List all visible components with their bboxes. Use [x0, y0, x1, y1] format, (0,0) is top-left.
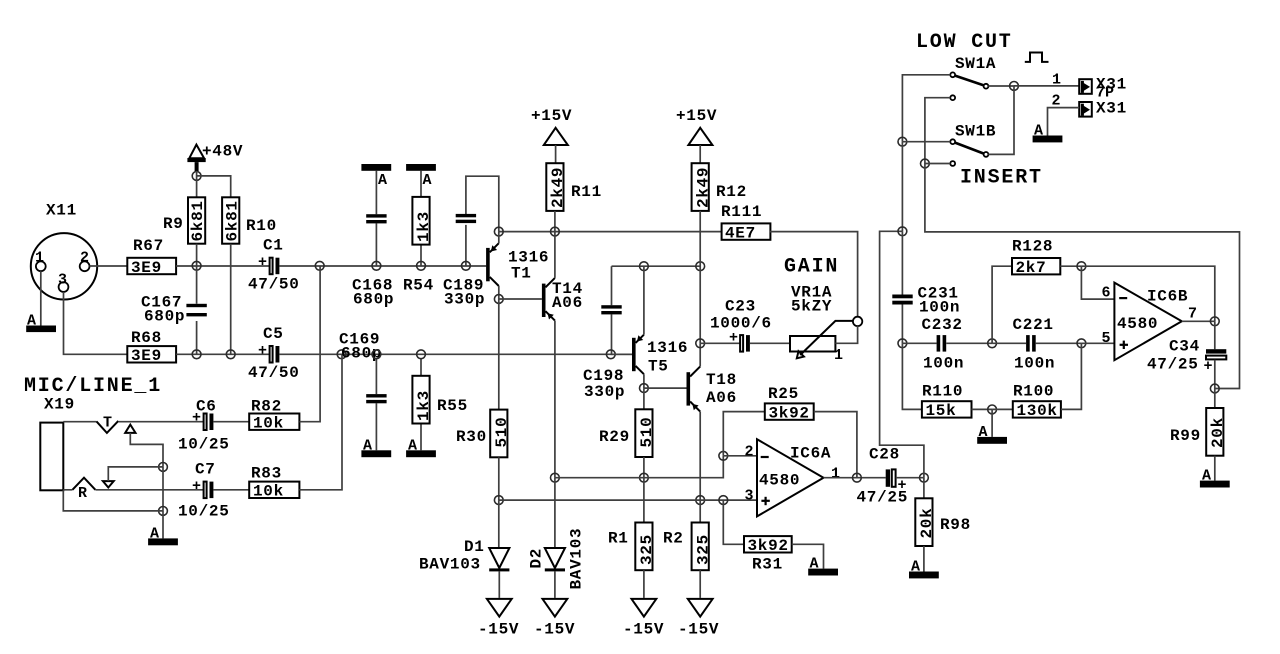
svg-text:6: 6: [1102, 285, 1111, 302]
svg-text:T18: T18: [706, 371, 737, 389]
svg-text:R98: R98: [940, 516, 971, 534]
svg-text:680p: 680p: [353, 291, 394, 309]
wire R11 to y232 line: [554, 211, 556, 232]
wire SW1A output to X31 node: [988, 85, 1014, 87]
resistor R111: [721, 203, 770, 242]
svg-text:3: 3: [745, 488, 754, 505]
svg-text:330p: 330p: [584, 383, 625, 401]
node +48V junction: [192, 172, 201, 181]
wire IC6A output: [824, 477, 886, 479]
node T14 emitter/pin2 junction: [551, 473, 560, 482]
node R30/D1/pin3 junction: [494, 496, 503, 505]
wire R99 to ground: [1214, 456, 1216, 481]
svg-text:+15V: +15V: [676, 107, 717, 125]
resistor R2: [663, 523, 712, 571]
svg-text:C221: C221: [1013, 316, 1054, 334]
transistor T1: [486, 243, 549, 286]
wire R128 branch up: [992, 266, 1012, 343]
wire ring switch to ground column: [108, 467, 163, 481]
diode D1 BAV103: [419, 538, 509, 574]
ground under R98: [909, 559, 939, 579]
svg-text:47/50: 47/50: [248, 276, 300, 294]
wire R2 to -15V: [699, 570, 701, 598]
node T18/R2/pin3 junction: [696, 496, 705, 505]
capacitor C28 47/25: [857, 446, 909, 507]
wire C34 to lower junction: [1214, 360, 1216, 389]
wire left rail middle: [901, 142, 903, 232]
node hot/C168 junction: [372, 261, 381, 270]
svg-text:510: 510: [493, 417, 511, 448]
wire R128 to feedback node: [1060, 265, 1081, 267]
svg-text:3k92: 3k92: [748, 537, 789, 555]
svg-text:C1: C1: [263, 237, 284, 255]
wire T1 emitter column to R30: [498, 299, 500, 410]
resistor R128: [1012, 238, 1060, 278]
resistor R9: [163, 197, 207, 243]
wire junction to C23: [700, 342, 740, 344]
svg-text:A: A: [423, 172, 432, 189]
svg-text:IC6B: IC6B: [1147, 288, 1188, 306]
diode D2 BAV103: [528, 528, 586, 590]
svg-text:A: A: [911, 559, 920, 576]
svg-text:D2: D2: [528, 548, 546, 569]
resistor R68: [127, 329, 176, 365]
resistor R25: [765, 385, 814, 422]
wire junction to R100: [992, 408, 1013, 410]
resistor R99: [1170, 408, 1227, 456]
wire T5 base: [611, 353, 632, 355]
node y232/T1 junction: [494, 227, 503, 236]
ground under R31: [808, 556, 838, 576]
svg-text:-15V: -15V: [678, 621, 719, 639]
resistor R55: [412, 359, 468, 451]
node SW1B throw2 junction: [921, 159, 930, 168]
node X31 pin1 junction: [1010, 82, 1019, 91]
connector X11 (XLR): [31, 202, 97, 300]
wire C28 to R98 junction: [896, 477, 924, 479]
svg-text:+48V: +48V: [202, 143, 243, 161]
capacitor C231: [892, 285, 960, 317]
power -15V under R1: [623, 599, 664, 639]
svg-text:R55: R55: [437, 397, 468, 415]
node output pin7 junction: [1210, 317, 1219, 326]
svg-text:47/25: 47/25: [1147, 356, 1199, 374]
svg-text:C232: C232: [922, 316, 963, 334]
node R110/R100/ground junction: [988, 405, 997, 414]
wire pin5 to op-amp: [1081, 342, 1114, 344]
wire tip switch to ground column: [130, 433, 163, 467]
svg-text:+: +: [192, 410, 201, 427]
resistor R12: [692, 163, 747, 211]
resistor R10: [222, 197, 277, 243]
wire junction to R2: [699, 500, 701, 522]
wire R110 branch: [902, 343, 922, 409]
wire junction to R98: [923, 478, 925, 499]
svg-text:X19: X19: [44, 396, 75, 414]
wire junction to SW1B common: [902, 141, 950, 143]
jack tip switch contact arrow: [125, 425, 135, 433]
node C232/C221/R128 junction: [988, 339, 997, 348]
svg-text:3E9: 3E9: [131, 259, 162, 277]
svg-text:LOW CUT: LOW CUT: [916, 31, 1013, 54]
svg-text:100n: 100n: [919, 299, 960, 317]
wire +15V to R12: [699, 145, 701, 163]
wire T14 emitter down: [554, 321, 556, 478]
svg-text:+: +: [258, 343, 267, 360]
svg-text:+: +: [258, 254, 267, 271]
resistor R54: [403, 171, 434, 295]
power +15V above R12: [676, 107, 717, 145]
wire feedback to output: [1081, 266, 1214, 321]
transistor T5: [632, 335, 688, 376]
wire R30 to pin3 row: [498, 457, 500, 500]
capacitor C6 10/25: [178, 398, 230, 454]
wire X31 pin2 to ground: [1048, 108, 1080, 136]
svg-text:R54: R54: [403, 277, 434, 295]
node R12 column junction: [696, 262, 705, 271]
wire R100 up to pin5 junction: [1061, 343, 1082, 409]
capacitor C168: [352, 171, 394, 309]
node SW1B common junction: [898, 137, 907, 146]
wire T1 collector up: [498, 232, 500, 244]
svg-text:6k81: 6k81: [223, 200, 241, 241]
wire ground column to ground: [162, 511, 164, 539]
resistor R29: [599, 409, 656, 457]
svg-text:2: 2: [745, 444, 754, 461]
resistor R31: [744, 536, 792, 573]
wire SW1B output up to X31 node: [988, 86, 1014, 154]
wire left rail to C231: [901, 231, 903, 294]
svg-text:10/25: 10/25: [178, 436, 230, 454]
svg-text:1k3: 1k3: [415, 390, 433, 421]
node T5 collector junction: [640, 262, 649, 271]
svg-text:20k: 20k: [1209, 417, 1227, 448]
ground under C169: [361, 438, 391, 458]
svg-text:A: A: [408, 438, 417, 455]
wire C231 to pin5 row: [901, 305, 903, 344]
svg-text:+: +: [192, 478, 201, 495]
wire junction to C221: [992, 342, 1026, 344]
svg-text:+15V: +15V: [531, 107, 572, 125]
svg-text:5: 5: [1102, 330, 1111, 347]
wire junction to D1: [498, 500, 500, 548]
node C221/R100/pin5 junction: [1077, 339, 1086, 348]
node output/R25 junction: [853, 473, 862, 482]
wire +15V to R11: [555, 145, 557, 163]
wire D2 to -15V: [554, 571, 556, 598]
svg-text:R111: R111: [721, 203, 762, 221]
svg-text:R30: R30: [456, 428, 487, 446]
svg-text:10k: 10k: [253, 415, 284, 433]
wire IC6B output: [1182, 320, 1215, 322]
wire bypass rail to C34 output: [925, 164, 1240, 389]
svg-text:330p: 330p: [444, 291, 485, 309]
wire SW1A common to left rail: [902, 75, 950, 142]
svg-text:+: +: [1204, 358, 1213, 375]
svg-text:3k92: 3k92: [769, 404, 810, 422]
switch SW1B: [950, 123, 996, 166]
wire junction to C34: [1214, 321, 1216, 349]
node C231/R110 junction: [898, 339, 907, 348]
svg-text:R128: R128: [1012, 238, 1053, 256]
resistor R1: [608, 523, 656, 571]
svg-text:680p: 680p: [341, 345, 382, 363]
svg-text:C5: C5: [263, 325, 284, 343]
node hot/R9 junction: [192, 261, 201, 270]
svg-text:R: R: [78, 485, 87, 502]
wire cold C5 onward: [279, 353, 632, 355]
svg-text:1000/6: 1000/6: [710, 315, 772, 333]
wire R31 branch: [723, 500, 744, 544]
node pin2/R25 junction: [719, 451, 728, 460]
svg-text:4E7: 4E7: [725, 224, 756, 242]
svg-text:C28: C28: [869, 446, 900, 464]
svg-text:2k49: 2k49: [694, 167, 712, 208]
wire jack ring row: [63, 489, 203, 491]
power +48V: [187, 143, 243, 172]
power -15V under R2: [678, 599, 719, 639]
wire C221 to pin5 junction: [1036, 342, 1082, 344]
wire R110 to ground junction: [972, 408, 993, 410]
wire junction to D2: [554, 478, 556, 548]
wire pot right terminal: [835, 326, 857, 343]
capacitor C169: [339, 331, 387, 451]
svg-text:R11: R11: [571, 183, 602, 201]
svg-text:R68: R68: [131, 329, 162, 347]
wire T18 base: [644, 387, 687, 389]
wire T14 base: [499, 298, 542, 300]
svg-text:2k7: 2k7: [1016, 259, 1047, 277]
connector X31 pin1: [1079, 76, 1127, 102]
wire R12 down across y232: [699, 211, 701, 343]
wire tip contact to C6: [118, 421, 203, 423]
svg-text:15k: 15k: [926, 402, 957, 420]
wire T14 collector up: [554, 232, 556, 278]
svg-text:3: 3: [58, 272, 67, 289]
svg-text:47/50: 47/50: [248, 364, 300, 382]
node R12/C23/T18 junction: [696, 339, 705, 348]
svg-text:7: 7: [1188, 306, 1197, 323]
wire hot line R67 to C1: [176, 265, 270, 267]
svg-text:X31: X31: [1096, 100, 1127, 118]
node cold/R55 junction: [417, 350, 426, 359]
svg-text:325: 325: [638, 534, 656, 565]
wire hot C1 to junction: [279, 265, 486, 267]
wire SW1A throw2 to bypass rail: [925, 98, 950, 164]
ground under R99: [1200, 468, 1230, 488]
node hot/R82-branch junction: [315, 261, 324, 270]
switch SW1A: [950, 55, 996, 100]
svg-text:100n: 100n: [1014, 355, 1055, 373]
wire R9 to hot line: [196, 244, 198, 266]
power -15V under D1: [478, 599, 519, 639]
wire R31 to ground: [792, 544, 824, 568]
wire C23 to pot: [750, 342, 790, 344]
ground under R55: [406, 438, 436, 458]
svg-text:-15V: -15V: [623, 621, 664, 639]
wire pin3 row: [499, 499, 757, 501]
capacitor C232: [922, 316, 965, 373]
svg-text:A: A: [150, 526, 159, 543]
wire node to X31 pin1: [1014, 85, 1079, 87]
wire R29 to pin2 row: [643, 457, 645, 478]
resistor R82: [249, 398, 299, 433]
svg-text:20k: 20k: [918, 508, 936, 539]
resistor R11: [546, 163, 602, 211]
node pin3/R31 junction: [719, 496, 728, 505]
wire R82 up to hot line: [299, 266, 320, 422]
wire R98 to ground: [923, 546, 925, 572]
node cold/R83-branch junction: [337, 350, 346, 359]
svg-text:R9: R9: [163, 215, 184, 233]
capacitor C189: [443, 176, 499, 308]
capacitor C7 10/25: [178, 461, 230, 521]
jack tip contact T: [97, 415, 119, 433]
wire cold line R68 to C5: [176, 353, 270, 355]
svg-text:BAV103: BAV103: [419, 556, 481, 574]
node cold/R10 junction: [226, 350, 235, 359]
potentiometer VR1A 5kZY: [790, 284, 862, 365]
svg-text:2: 2: [80, 250, 89, 267]
svg-text:R99: R99: [1170, 427, 1201, 445]
svg-text:R10: R10: [246, 217, 277, 235]
svg-text:1: 1: [831, 466, 840, 483]
capacitor C1 47/50: [248, 237, 300, 294]
svg-text:510: 510: [638, 417, 656, 448]
node ground column / sleeve junction: [159, 507, 168, 516]
svg-text:R82: R82: [251, 398, 282, 416]
wire T5 collector line y266: [612, 265, 701, 267]
wire junction to SW1B throw2: [925, 163, 950, 165]
op-amp IC6A: [757, 439, 831, 516]
svg-text:A: A: [363, 438, 372, 455]
svg-text:+: +: [729, 330, 738, 347]
capacitor C34 47/25: [1147, 338, 1226, 376]
ground above C168: [361, 164, 391, 189]
svg-text:-15V: -15V: [534, 621, 575, 639]
node cold/C198 junction: [606, 350, 615, 359]
wire T18 collector up: [699, 343, 701, 366]
wire pin6 branch: [1081, 266, 1114, 299]
svg-text:4580: 4580: [759, 472, 800, 490]
svg-text:R67: R67: [133, 237, 164, 255]
wire hot line X11 pin2 to R67: [90, 265, 128, 267]
node cold/C169 junction: [372, 350, 381, 359]
wire D1 to -15V: [498, 571, 500, 598]
svg-text:1316: 1316: [647, 339, 688, 357]
svg-text:A: A: [979, 424, 988, 441]
svg-text:A: A: [378, 172, 387, 189]
ground under X19: [148, 526, 178, 546]
svg-text:A06: A06: [552, 294, 583, 312]
svg-text:R100: R100: [1013, 383, 1054, 401]
ground above R54: [406, 164, 436, 189]
svg-text:6k81: 6k81: [189, 200, 207, 241]
wire R25 to output junction: [814, 412, 857, 478]
svg-text:IC6A: IC6A: [790, 445, 831, 463]
svg-text:SW1B: SW1B: [955, 123, 996, 141]
connector X31 pin2: [1079, 100, 1127, 118]
svg-text:A: A: [1202, 468, 1211, 485]
svg-text:C34: C34: [1169, 338, 1200, 356]
wire pin1 to ground: [40, 271, 42, 325]
capacitor C23 1000/6: [710, 298, 772, 352]
capacitor C221: [1013, 316, 1056, 373]
svg-text:R110: R110: [922, 383, 963, 401]
node y232/R11 junction: [551, 227, 560, 236]
wire T18 emitter down: [699, 412, 701, 501]
ground under X31 pin2: [1033, 123, 1063, 143]
op-amp IC6B: [1114, 283, 1188, 361]
wire R1 to -15V: [643, 570, 645, 598]
wire junction to R99: [1214, 389, 1216, 409]
wire +48V to R9 and R10: [197, 171, 231, 197]
jack ring switch contact arrow: [103, 481, 114, 487]
wire T5 emitter down: [643, 374, 645, 388]
wire T1 emitter down: [498, 286, 500, 299]
node T5 emitter/T18 base junction: [640, 384, 649, 393]
svg-text:325: 325: [694, 534, 712, 565]
svg-text:SW1A: SW1A: [955, 55, 996, 73]
svg-text:C23: C23: [725, 298, 756, 316]
node left rail / insert send junction: [898, 227, 907, 236]
svg-text:A: A: [810, 556, 819, 573]
resistor R83: [249, 465, 299, 501]
svg-text:2k49: 2k49: [549, 167, 567, 208]
resistor R110: [922, 383, 972, 421]
resistor R100: [1013, 383, 1061, 421]
wire C232 to mid junction: [946, 342, 992, 344]
node R128/pin6 junction: [1077, 262, 1086, 271]
wire C7 to R83: [213, 489, 249, 491]
svg-text:5kZY: 5kZY: [791, 298, 832, 316]
capacitor C5 47/50: [248, 325, 300, 382]
power -15V under D2: [534, 599, 575, 639]
svg-text:1: 1: [1052, 72, 1061, 89]
svg-text:1: 1: [834, 347, 843, 364]
wire cold line X11 pin3 to R68: [64, 292, 128, 354]
resistor R30: [456, 410, 511, 458]
wire junction to C232: [902, 342, 936, 344]
node C28/R98 junction: [920, 473, 929, 482]
svg-text:R12: R12: [716, 183, 747, 201]
wire jack tip row: [63, 421, 96, 423]
svg-text:R1: R1: [608, 530, 629, 548]
svg-text:R83: R83: [251, 465, 282, 483]
wire y232 line: [499, 231, 722, 233]
svg-text:T1: T1: [511, 265, 532, 283]
svg-text:X11: X11: [46, 202, 77, 220]
svg-text:1: 1: [35, 250, 44, 267]
svg-text:10/25: 10/25: [178, 503, 230, 521]
node cold/C167 junction: [192, 350, 201, 359]
node ground column / ring switch junction: [159, 463, 168, 472]
resistor R98: [915, 498, 971, 546]
svg-text:A: A: [1034, 123, 1043, 140]
wire ground column middle: [162, 467, 164, 511]
wire pin2 row: [555, 456, 723, 478]
wire R111 to pot wiper: [770, 232, 858, 317]
resistor R67: [127, 237, 176, 277]
capacitor C167: [141, 266, 207, 354]
ground under filter: [977, 424, 1007, 444]
wire junction to R29: [643, 388, 645, 409]
transistor T14: [542, 278, 583, 321]
svg-text:100n: 100n: [923, 355, 964, 373]
svg-text:-15V: -15V: [478, 621, 519, 639]
pulse waveform icon: [1025, 53, 1049, 62]
svg-text:R31: R31: [752, 556, 783, 574]
